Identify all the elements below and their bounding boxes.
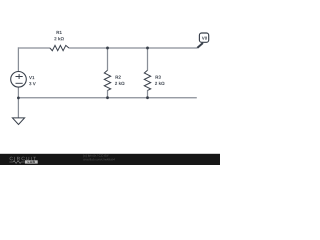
wire V1 bottom to node — [17, 87, 19, 98]
value R3 2 kOhm — [155, 82, 165, 85]
wire top horizontal left of R1 — [18, 47, 50, 49]
label R2 — [116, 76, 121, 79]
wire R3 top lead — [147, 48, 149, 70]
node junction R3-top — [146, 47, 149, 50]
resistor R3 — [144, 70, 150, 90]
node junction R2-top — [106, 47, 109, 50]
attribution line 2 — [83, 158, 115, 160]
wire left vertical corner to V1 top — [17, 47, 19, 71]
value V1 3 V — [29, 82, 36, 85]
logo LAB — [25, 160, 38, 163]
watermark bar — [0, 154, 220, 165]
net label V0 text — [202, 37, 207, 40]
node V0 flag pointer — [197, 43, 203, 48]
wire node to ground — [17, 98, 19, 118]
logo zigzag — [9, 161, 24, 164]
wire R2 top lead — [107, 48, 109, 70]
wire top horizontal right of R1 — [69, 47, 198, 49]
ground — [12, 118, 24, 125]
voltage source V1 — [11, 72, 27, 88]
value R2 2 kOhm — [115, 82, 125, 85]
attribution line 1 — [83, 154, 109, 157]
logo CIRCUIT — [10, 157, 36, 160]
label R1 — [57, 31, 62, 34]
value R1 2 kOhm — [54, 37, 64, 40]
node junction R2-bottom — [106, 96, 109, 99]
resistor R1 — [50, 45, 69, 50]
node V0 flag box — [199, 33, 208, 42]
wire R3 bottom lead — [147, 90, 149, 97]
node junction V1-bottom — [17, 97, 20, 100]
node junction R3-bottom — [146, 96, 149, 99]
label V1 — [29, 76, 34, 79]
wire R2 bottom lead — [107, 90, 109, 97]
wire bottom horizontal — [18, 97, 196, 99]
label R3 — [156, 76, 161, 79]
resistor R2 — [104, 70, 110, 90]
